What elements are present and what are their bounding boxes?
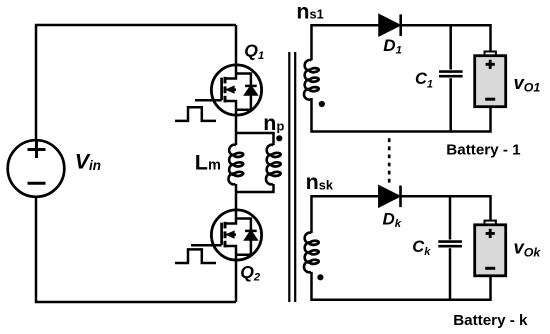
svg-text:Lm: Lm (195, 150, 221, 174)
svg-text:np: np (263, 111, 284, 135)
svg-text:vOk: vOk (514, 236, 542, 259)
svg-text:Battery - k: Battery - k (453, 312, 528, 329)
svg-text:C1: C1 (415, 70, 433, 90)
svg-text:Dk: Dk (383, 209, 402, 230)
svg-text:ns1: ns1 (296, 0, 323, 23)
svg-text:nsk: nsk (306, 170, 334, 194)
svg-text:vO1: vO1 (514, 72, 541, 94)
svg-text:Vin: Vin (75, 150, 101, 174)
svg-text:Q1: Q1 (244, 41, 264, 63)
svg-text:Battery - 1: Battery - 1 (446, 141, 521, 158)
svg-text:Ck: Ck (412, 238, 431, 258)
svg-text:Q2: Q2 (240, 262, 261, 283)
svg-text:D1: D1 (383, 36, 402, 57)
